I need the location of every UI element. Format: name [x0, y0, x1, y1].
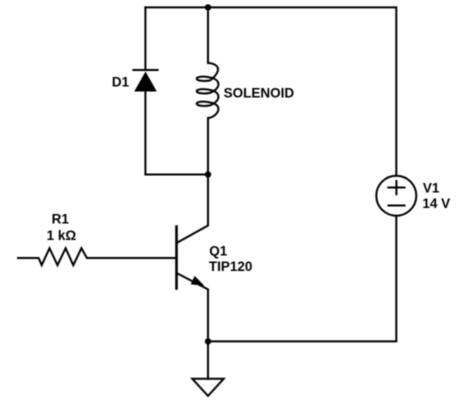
svg-text:SOLENOID: SOLENOID [224, 85, 295, 100]
svg-text:D1: D1 [112, 74, 130, 89]
svg-text:Q1: Q1 [209, 243, 228, 258]
svg-text:V1: V1 [423, 181, 440, 196]
svg-text:14 V: 14 V [422, 196, 450, 211]
svg-text:1 kΩ: 1 kΩ [47, 228, 77, 243]
svg-text:R1: R1 [52, 212, 70, 227]
svg-text:TIP120: TIP120 [209, 259, 253, 274]
